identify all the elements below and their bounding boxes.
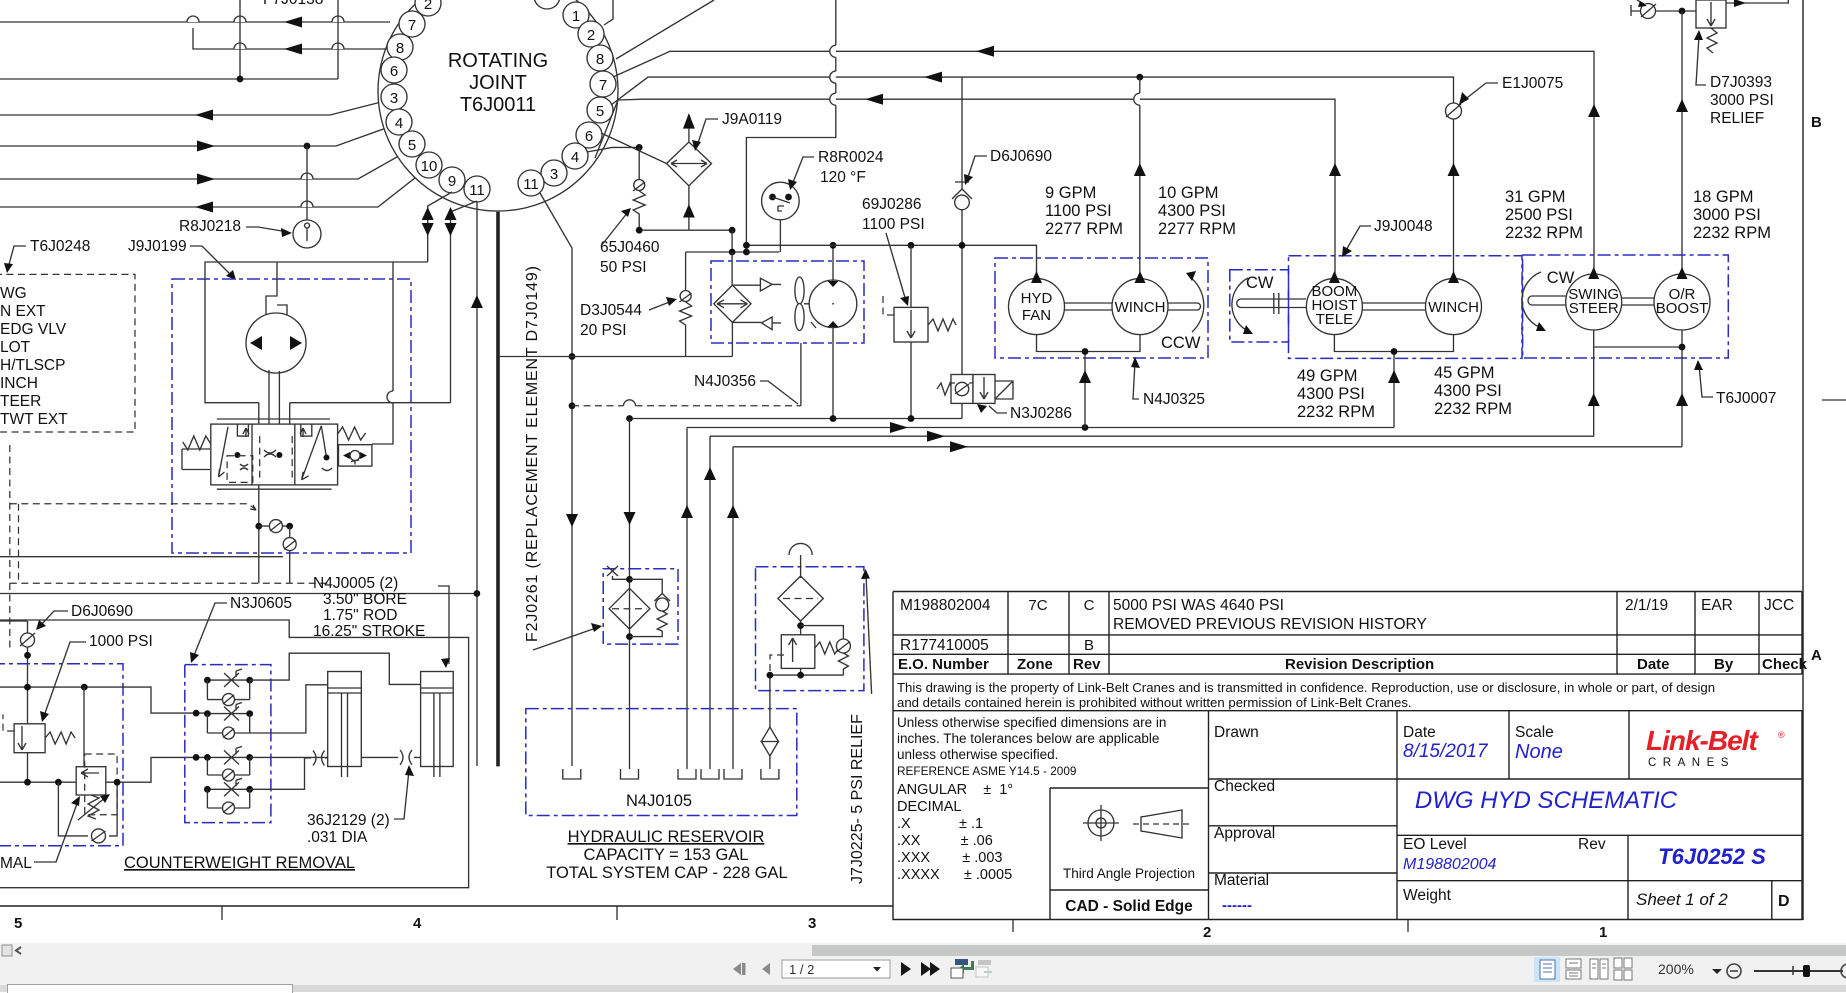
hop riser over y=51.3 xyxy=(830,45,836,57)
drain stub from fan box xyxy=(800,343,802,406)
svg-text:N4J0356: N4J0356 xyxy=(694,373,756,390)
leader D7J0393 xyxy=(1696,36,1706,85)
svg-text:BOOST: BOOST xyxy=(1656,300,1709,317)
svg-text:H/TLSCP: H/TLSCP xyxy=(0,357,65,374)
filter J9A0119 xyxy=(667,113,712,230)
svg-text:WINCH: WINCH xyxy=(1115,299,1166,316)
svg-text:2500 PSI: 2500 PSI xyxy=(1505,206,1573,224)
bank out3 to cyl2 rod xyxy=(250,756,421,758)
svg-text:7: 7 xyxy=(408,17,416,34)
svg-text:11: 11 xyxy=(523,176,539,193)
motor J9J0199 xyxy=(246,313,306,373)
prev view icon xyxy=(951,959,974,978)
arrow right y=427.5 xyxy=(890,422,908,433)
CW arc group3 xyxy=(1522,272,1541,327)
hose break cyl2 xyxy=(400,750,412,765)
svg-text:Check: Check xyxy=(1762,656,1808,673)
CW arc group2 xyxy=(1232,278,1248,330)
valve bottom bar line xyxy=(217,488,332,490)
svg-text:E.O. Number: E.O. Number xyxy=(898,656,989,673)
leader 65J0460 xyxy=(601,212,628,246)
svg-text:2277 RPM: 2277 RPM xyxy=(1045,220,1123,238)
dashed drain line y=405.8 xyxy=(572,405,801,407)
svg-text:120 °F: 120 °F xyxy=(820,169,866,186)
valve right cell internals xyxy=(302,426,327,480)
leader 36J2129 xyxy=(394,770,409,819)
N3J0286 bottom port xyxy=(961,403,963,418)
svg-text:TEER: TEER xyxy=(0,393,41,410)
pin 4 left xyxy=(386,109,412,135)
svg-text:4: 4 xyxy=(571,149,579,166)
svg-text:18 GPM: 18 GPM xyxy=(1693,188,1754,206)
dashed pilot 69J0286 xyxy=(883,296,894,315)
wire from pin8R to top edge xyxy=(616,0,714,59)
svg-text:RELIEF: RELIEF xyxy=(1710,110,1764,127)
cylinder 2 N4J0005 xyxy=(421,672,454,778)
svg-text:1100 PSI: 1100 PSI xyxy=(862,216,925,233)
valve center throttles xyxy=(264,450,276,457)
wire B y=49 xyxy=(193,28,392,49)
tank port 6 xyxy=(761,769,779,779)
hop on wire A over x=240 xyxy=(234,16,246,22)
junction bank lower input xyxy=(193,754,200,761)
junction y782 x27.5 xyxy=(24,779,31,786)
cylinder 1 N4J0005 xyxy=(328,672,362,778)
wire to left edge y=556.7 xyxy=(0,556,283,558)
svg-text:CAPACITY = 153 GAL: CAPACITY = 153 GAL xyxy=(584,846,749,864)
double arrows x=427.7 xyxy=(422,207,434,220)
relief 65J0460 xyxy=(633,147,645,230)
svg-text:4: 4 xyxy=(395,115,403,132)
leader J9J0048 xyxy=(1345,226,1371,252)
arrow up x=476.9 xyxy=(471,295,483,308)
page number box xyxy=(782,960,890,978)
wire y=230.2 xyxy=(639,229,732,231)
svg-text:.XXX ± .003: .XXX ± .003 xyxy=(897,850,1002,866)
svg-text:CW: CW xyxy=(1246,274,1274,292)
junction dashed start y=405.8 xyxy=(569,402,576,409)
svg-text:CW: CW xyxy=(1547,269,1575,287)
relief 1000psi body xyxy=(14,724,45,753)
hose break cyl1 xyxy=(313,751,325,766)
arrow right y=446.8 xyxy=(950,441,968,452)
pin 5 left xyxy=(399,131,425,157)
svg-text:N4J0105: N4J0105 xyxy=(626,792,692,810)
bank out4 to cyl1 rod xyxy=(250,758,328,789)
tank drop x=687 xyxy=(686,428,688,770)
svg-text:T6J0011: T6J0011 xyxy=(460,94,536,116)
dashed box T6J0248 xyxy=(0,274,135,432)
junction check right xyxy=(286,523,293,530)
svg-text:4: 4 xyxy=(413,915,422,932)
hop dashed over x=629.5 xyxy=(624,400,636,406)
arrow up x=710 xyxy=(704,467,716,480)
junction drain1 xyxy=(1082,348,1089,355)
hop winch1 riser over y=99.2 xyxy=(1134,93,1140,105)
pin 11 left xyxy=(464,176,490,202)
pin 6 left xyxy=(381,57,407,83)
wire F y=179 to pin5 xyxy=(0,153,404,179)
valve top bar line xyxy=(217,418,330,420)
wire G y=207 to pin10 xyxy=(0,174,420,207)
junction D6J0690 drop xyxy=(959,242,966,249)
double arrows x=450.5 xyxy=(445,207,457,220)
temp switch R8R0024 xyxy=(762,182,800,252)
svg-text:3: 3 xyxy=(390,90,398,107)
relief output line top xyxy=(1725,0,1789,3)
svg-text:N EXT: N EXT xyxy=(0,303,46,320)
arrow up drain1 xyxy=(1079,370,1091,383)
arrow right y=436.2 xyxy=(927,431,945,442)
svg-text:Approval: Approval xyxy=(1214,825,1275,842)
svg-text:R177410005: R177410005 xyxy=(900,637,989,654)
svg-text:M198802004: M198802004 xyxy=(1403,856,1497,873)
O/R BOOST pump xyxy=(1654,267,1710,330)
junction left y230 xyxy=(636,227,643,234)
arrow down x=629.5 xyxy=(624,512,636,525)
valve left cell internals xyxy=(219,427,229,477)
svg-text:Sheet 1 of 2: Sheet 1 of 2 xyxy=(1636,890,1728,909)
svg-text:5: 5 xyxy=(596,103,604,120)
dashed arrow tip xyxy=(250,505,256,510)
check valve top right xyxy=(1641,4,1656,19)
rotating joint circle T6J0011 xyxy=(378,0,618,211)
zone tick 2/1 xyxy=(1407,920,1409,932)
svg-text:F2J0261 (REPLACEMENT ELEMENT D: F2J0261 (REPLACEMENT ELEMENT D7J0149) xyxy=(524,265,541,642)
pilot dashed into valve xyxy=(10,504,256,510)
svg-text:J7J0225- 5 PSI RELIEF: J7J0225- 5 PSI RELIEF xyxy=(849,714,866,884)
arrow left y=99.2 xyxy=(865,94,883,105)
blue box pump MAL xyxy=(0,664,123,846)
E1J0075 check valve xyxy=(1446,103,1462,119)
arrow up x=687 xyxy=(681,505,693,518)
arrow left on wire G xyxy=(195,202,213,213)
leader N4J0005 xyxy=(438,586,449,664)
arrow up x=733 xyxy=(727,505,739,518)
reservoir blue box N4J0105 xyxy=(526,709,797,816)
arrow up winch2 riser xyxy=(1448,163,1460,176)
junction drain3 xyxy=(1679,344,1686,351)
spring 1000psi xyxy=(45,732,75,744)
long dashed line y=583.3 xyxy=(10,582,330,584)
wire y=687.1 xyxy=(0,687,207,713)
svg-text:T6J0248: T6J0248 xyxy=(30,238,90,255)
svg-text:EDG VLV: EDG VLV xyxy=(0,321,67,338)
hop on wire B over x=338 xyxy=(332,43,344,49)
blue box J9J0199 xyxy=(172,279,411,553)
svg-text:REFERENCE ASME Y14.5 - 2009: REFERENCE ASME Y14.5 - 2009 xyxy=(897,764,1076,778)
junction x=746 y252 xyxy=(743,249,750,256)
svg-text:5: 5 xyxy=(408,137,416,154)
svg-text:7C: 7C xyxy=(1028,597,1047,614)
D7J0393 spring xyxy=(1707,28,1717,53)
svg-text:5000 PSI WAS 4640 PSI: 5000 PSI WAS 4640 PSI xyxy=(1113,597,1284,614)
arrow up winch1 riser xyxy=(1134,163,1146,176)
bank row2 check xyxy=(207,714,249,739)
svg-text:WG: WG xyxy=(0,285,27,302)
relief output xyxy=(27,753,29,783)
check valve vertical xyxy=(289,526,291,583)
svg-text:Checked: Checked xyxy=(1214,778,1275,795)
blue box CW coupling xyxy=(1230,270,1289,342)
left dashed riser xyxy=(9,445,11,651)
svg-text:INCH: INCH xyxy=(0,375,38,392)
pin 1 right xyxy=(563,2,589,28)
svg-text:.XXXX ± .0005: .XXXX ± .0005 xyxy=(897,867,1012,883)
svg-text:Material: Material xyxy=(1214,872,1269,889)
svg-text:65J0460: 65J0460 xyxy=(600,239,660,256)
motor top link xyxy=(266,262,287,315)
svg-text:2: 2 xyxy=(587,27,595,44)
thick manifold bar x=498 xyxy=(496,212,500,767)
svg-text:Scale: Scale xyxy=(1515,724,1554,741)
fan filter diamond xyxy=(714,285,751,322)
arrow left y=51.3 xyxy=(976,46,994,57)
dashed pilot return relief xyxy=(770,655,784,673)
hop on wire B over x=240 xyxy=(234,43,246,49)
wire A y=22 xyxy=(0,21,390,23)
third angle projection symbol xyxy=(1088,810,1114,836)
bank row4 throttle xyxy=(204,778,253,796)
pin 7 left xyxy=(399,11,425,37)
return outlet wire xyxy=(770,668,844,728)
bank row1 throttle xyxy=(204,669,253,687)
shaft stub group3 xyxy=(1528,296,1566,305)
leader J9J0199 xyxy=(190,246,232,276)
svg-text:.X ± .1: .X ± .1 xyxy=(897,816,983,832)
check D6J0690 lower xyxy=(0,621,35,724)
frame bottom left part xyxy=(0,905,893,907)
arrow up drain2 xyxy=(1388,370,1400,383)
wire pin9 drop x=427.7 xyxy=(428,192,452,262)
wire y=252 xyxy=(686,251,780,253)
svg-text:3: 3 xyxy=(550,166,558,183)
wire pin11R diagonal to tank drop xyxy=(540,193,572,766)
svg-text:Zone: Zone xyxy=(1017,656,1053,673)
svg-text:FAN: FAN xyxy=(1022,307,1051,324)
bank row3 check xyxy=(207,757,249,781)
svg-text:D: D xyxy=(1778,893,1790,910)
vertical from top x=338 xyxy=(337,0,339,79)
svg-text:HYD: HYD xyxy=(1021,290,1053,307)
bypass check F2J0261 xyxy=(630,579,663,636)
manifold y=446.8 xyxy=(733,446,1682,448)
svg-text:2: 2 xyxy=(1203,924,1211,941)
junction x=911 xyxy=(908,242,915,249)
svg-text:JOINT: JOINT xyxy=(469,72,527,94)
svg-text:N4J0325: N4J0325 xyxy=(1143,391,1205,408)
arrow up boost drain xyxy=(1676,393,1688,406)
drain loop group2 xyxy=(1334,335,1453,428)
svg-text:6: 6 xyxy=(390,63,398,80)
svg-text:COUNTERWEIGHT REMOVAL: COUNTERWEIGHT REMOVAL xyxy=(124,854,355,872)
svg-text:5: 5 xyxy=(14,915,22,932)
blue box T6J0007 xyxy=(1523,255,1729,358)
wire y=245.3 xyxy=(746,245,1036,278)
junction y782 x117 xyxy=(114,779,121,786)
svg-text:16.25" STROKE: 16.25" STROKE xyxy=(313,623,425,640)
pin 3 right xyxy=(541,160,567,186)
manifold y=436.2 xyxy=(710,435,1594,437)
svg-text:3000 PSI: 3000 PSI xyxy=(1693,206,1761,224)
WINCH pump 2 xyxy=(1426,271,1482,335)
wire from pin7R y=51.3 to swing steer xyxy=(613,51,1594,273)
svg-text:E1J0075: E1J0075 xyxy=(1502,75,1563,92)
shaft fan-winch xyxy=(1065,303,1113,310)
bank row1 check xyxy=(207,680,249,706)
wire from pin3R y=99.2 to boom hoist riser xyxy=(595,99,1335,278)
leader D6J0690 lower xyxy=(40,611,68,626)
svg-text:69J0286: 69J0286 xyxy=(862,196,921,213)
svg-text:TWT EXT: TWT EXT xyxy=(0,411,68,428)
temp sensor R8J0218 circle xyxy=(293,220,321,248)
svg-text:Rev: Rev xyxy=(1578,836,1606,853)
blue box N3J0605 xyxy=(185,665,271,823)
svg-text:JCC: JCC xyxy=(1764,597,1794,614)
junction filter bottom xyxy=(626,633,633,640)
tank drop x=710 xyxy=(709,436,711,769)
svg-text:50 PSI: 50 PSI xyxy=(600,259,647,276)
relief D3J0544 xyxy=(680,252,692,357)
fan blades xyxy=(795,277,804,304)
tank port 2 xyxy=(621,769,639,779)
svg-text:J9J0199: J9J0199 xyxy=(128,238,187,255)
shaft boom-winch2 xyxy=(1362,303,1425,310)
svg-text:®: ® xyxy=(1778,730,1785,740)
return bypass check xyxy=(801,626,844,639)
BOOM HOIST TELE pump xyxy=(1306,271,1362,335)
E1J0075 riser to winch2 xyxy=(1453,119,1455,276)
link x=732.1 xyxy=(731,230,733,252)
leader T6J0007 xyxy=(1699,365,1713,397)
svg-text:36J2129 (2): 36J2129 (2) xyxy=(307,812,390,829)
valve left cap xyxy=(182,449,210,470)
D7J0393 relief valve body xyxy=(1696,0,1726,28)
svg-text:45 GPM: 45 GPM xyxy=(1434,364,1495,382)
pin 2 left top xyxy=(415,0,441,16)
nav prev page button xyxy=(762,963,770,975)
zone tick 5/4 xyxy=(221,906,223,920)
WINCH pump 1 xyxy=(1112,271,1168,335)
svg-text:B: B xyxy=(1084,637,1094,654)
o/r boost riser x=1682 xyxy=(1681,11,1683,273)
svg-text:EO Level: EO Level xyxy=(1403,836,1467,853)
arrow up swing riser xyxy=(1588,104,1600,117)
leader MAL xyxy=(34,801,78,862)
blue box J9J0048 xyxy=(1289,256,1523,359)
leader R8J0218 xyxy=(246,227,288,232)
svg-text:.XX ± .06: .XX ± .06 xyxy=(897,833,993,849)
svg-text:STEER: STEER xyxy=(1569,300,1619,317)
svg-text:T6J0007: T6J0007 xyxy=(1716,390,1776,407)
zone tick 3/2 xyxy=(1012,920,1014,932)
junction x=911 xyxy=(908,415,915,422)
svg-text:J9J0048: J9J0048 xyxy=(1374,218,1433,235)
arrow up boom riser xyxy=(1329,163,1341,176)
valve left spring xyxy=(183,436,211,450)
leader N4J0325 xyxy=(1133,362,1139,399)
section border xyxy=(0,620,469,888)
filter outlet xyxy=(800,621,802,635)
junction right y230 xyxy=(729,227,736,234)
svg-text:4300 PSI: 4300 PSI xyxy=(1297,385,1365,403)
fan filter drain to y=356.5 xyxy=(731,322,733,356)
junction 65J0460 top xyxy=(636,144,643,151)
check triangles xyxy=(732,278,781,329)
svg-text:M198802004: M198802004 xyxy=(900,597,991,614)
arrow left y=77.1 xyxy=(924,72,942,83)
wire from pin2R up xyxy=(604,0,613,25)
wire C y=79 xyxy=(0,78,338,80)
wire E y=146 to pin4 xyxy=(0,127,389,146)
junction E x=307 xyxy=(304,143,311,150)
arrow down tank drop x=572 xyxy=(566,514,578,527)
svg-text:WINCH: WINCH xyxy=(1428,299,1479,316)
svg-text:49 GPM: 49 GPM xyxy=(1297,367,1358,385)
nav next page button xyxy=(901,962,911,976)
svg-text:20 PSI: 20 PSI xyxy=(580,322,627,339)
junction y=356.5 xyxy=(569,353,576,360)
wire pin11 drop x=476.9 xyxy=(476,202,478,766)
riser 69J0286 xyxy=(910,245,912,307)
blue box return filter xyxy=(756,567,864,691)
svg-text:9: 9 xyxy=(448,173,456,190)
leader E1J0075 xyxy=(1463,83,1498,101)
svg-text:3: 3 xyxy=(808,915,816,932)
junction x=746.4 xyxy=(743,242,750,249)
svg-text:1.75" ROD: 1.75" ROD xyxy=(323,607,397,624)
junction filter top xyxy=(626,576,633,583)
x mark breather xyxy=(607,566,630,579)
svg-text:1: 1 xyxy=(572,8,580,25)
svg-text:1000 PSI: 1000 PSI xyxy=(89,633,153,650)
zoom out button xyxy=(1727,964,1741,978)
pin 3 left xyxy=(381,84,407,110)
shaft swing-boost xyxy=(1622,298,1654,305)
wire pin6R to filter xyxy=(601,133,667,164)
frame right border xyxy=(1802,0,1804,920)
arrow up o/r riser xyxy=(1676,99,1688,112)
junction drain2 xyxy=(1391,348,1398,355)
svg-text:10 GPM: 10 GPM xyxy=(1158,184,1219,202)
svg-text:A: A xyxy=(1811,647,1822,664)
svg-text:Unless otherwise specified dim: Unless otherwise specified dimensions ar… xyxy=(897,715,1166,730)
svg-text:EAR: EAR xyxy=(1701,597,1733,614)
svg-text:MAL: MAL xyxy=(0,855,32,872)
svg-text:Date: Date xyxy=(1637,656,1670,673)
valve 69J0286 body xyxy=(894,307,928,342)
junction y687 x27.5 xyxy=(24,684,31,691)
arrow left on wire A xyxy=(284,17,302,28)
svg-text:C: C xyxy=(1084,597,1095,614)
svg-text:4300 PSI: 4300 PSI xyxy=(1158,202,1226,220)
svg-text:2232 RPM: 2232 RPM xyxy=(1693,224,1771,242)
svg-text:unless otherwise specified.: unless otherwise specified. xyxy=(897,747,1058,762)
leader 1000 PSI xyxy=(44,642,86,716)
leader N4J0356 xyxy=(760,381,798,404)
check valve horizontal xyxy=(259,525,290,527)
junction x=831 xyxy=(830,415,837,422)
svg-text:By: By xyxy=(1714,656,1734,673)
svg-text:Rev: Rev xyxy=(1073,656,1101,673)
junction C x=240 xyxy=(237,76,244,83)
arrow up swing drain xyxy=(1588,393,1600,406)
svg-text:1: 1 xyxy=(1599,924,1607,941)
svg-text:DECIMAL: DECIMAL xyxy=(897,799,961,815)
junction x=476.9 y=593.5 xyxy=(474,590,481,597)
svg-text:ROTATING: ROTATING xyxy=(448,50,548,72)
blue box N4J0356 xyxy=(711,261,864,343)
